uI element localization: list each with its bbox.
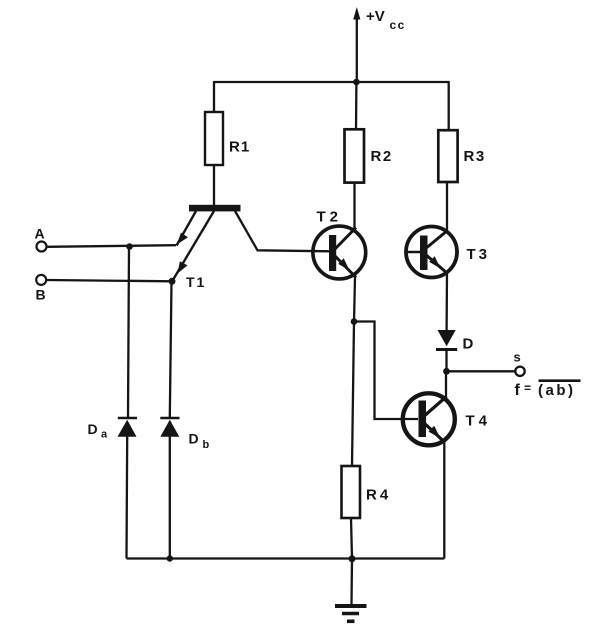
wire: rail corner down to R3 — [448, 81, 450, 130]
ground symbol — [335, 606, 367, 621]
wire: A input line — [47, 245, 176, 247]
wire: R2 to T2 collector — [353, 183, 355, 229]
transistor T1 collector wire to T2 base — [235, 211, 331, 251]
wire: diode to output node — [445, 350, 447, 372]
resistor R1 — [205, 112, 250, 165]
wire: output node down to T4 collector — [445, 371, 447, 399]
svg-text:T2: T2 — [317, 209, 343, 226]
terminal circle A — [37, 242, 47, 252]
wire: Da to bottom rail — [125, 437, 128, 559]
svg-text:R4: R4 — [366, 487, 391, 504]
transistor T1 emitter to A — [177, 211, 197, 246]
wire: node to T4 base — [354, 322, 418, 420]
terminal circle B — [36, 275, 46, 285]
wire: T3 emitter to diode D — [445, 272, 448, 330]
wire: A node down to diode Da — [128, 247, 129, 417]
+Vcc supply arrow — [353, 7, 360, 82]
svg-text:a: a — [101, 429, 108, 441]
wire: Vcc to R2 — [355, 82, 358, 129]
svg-text:=: = — [524, 381, 531, 395]
svg-text:B: B — [36, 287, 46, 303]
node: Vcc junction dot — [353, 79, 360, 86]
wire: B input line — [47, 280, 173, 281]
wire: top Vcc rail — [214, 81, 449, 83]
transistor T4 — [403, 393, 491, 445]
wire: rail to ground — [350, 559, 353, 605]
svg-text:T3: T3 — [467, 246, 491, 263]
input terminal A — [35, 226, 47, 252]
transistor T2 — [313, 209, 366, 279]
node: T1 emitter junction dot — [169, 278, 176, 285]
output terminal s — [514, 350, 525, 376]
svg-text:D: D — [88, 421, 98, 437]
diode Db — [160, 418, 209, 451]
svg-text:D: D — [189, 431, 199, 447]
svg-text:b: b — [203, 439, 210, 451]
transistor T1 (multi-emitter) base bar — [189, 205, 241, 212]
wire: bottom rail — [127, 557, 445, 559]
svg-text:R1: R1 — [229, 139, 250, 156]
resistor R2 — [345, 129, 393, 182]
node: ground rail junction dot — [349, 555, 356, 562]
transistor T1 emitter to B — [172, 211, 214, 281]
label f = (ab) — [515, 381, 581, 399]
svg-text:(ab): (ab) — [538, 382, 576, 399]
node: T2 emitter junction dot — [351, 318, 358, 325]
wire: R1 bottom to T1 base — [213, 165, 215, 205]
node: A junction dot — [126, 243, 133, 250]
svg-text:cc: cc — [390, 18, 406, 32]
svg-text:f: f — [515, 382, 521, 399]
svg-text:A: A — [35, 226, 45, 242]
resistor R4 — [342, 466, 392, 518]
wire: R3 to T3 collector — [446, 182, 448, 232]
wire: output node to terminal s — [447, 370, 516, 372]
svg-text:T1: T1 — [186, 274, 206, 290]
wire: B node down to diode Db — [170, 281, 172, 417]
+Vcc label — [366, 8, 406, 32]
transistor T3 — [405, 227, 491, 278]
svg-text:T4: T4 — [466, 413, 492, 430]
wire: T2 emitter down to node — [354, 277, 355, 322]
diode Da — [88, 418, 138, 441]
node: output junction dot — [443, 368, 450, 375]
svg-text:R2: R2 — [371, 148, 393, 165]
wire: node down to R4 — [352, 322, 354, 467]
wire: Db to bottom rail — [169, 437, 171, 559]
wire: R4 to bottom rail — [351, 518, 352, 559]
wire: rail to R1 top — [213, 81, 215, 112]
node: Db rail junction dot — [167, 555, 173, 561]
svg-text:R3: R3 — [464, 148, 486, 165]
svg-text:+V: +V — [366, 8, 385, 25]
resistor R3 — [438, 130, 485, 182]
svg-text:s: s — [514, 350, 521, 365]
diode D — [436, 330, 474, 353]
svg-text:D: D — [463, 336, 474, 353]
input terminal B — [36, 275, 47, 303]
wire: T4 emitter down to bottom rail — [443, 441, 445, 559]
